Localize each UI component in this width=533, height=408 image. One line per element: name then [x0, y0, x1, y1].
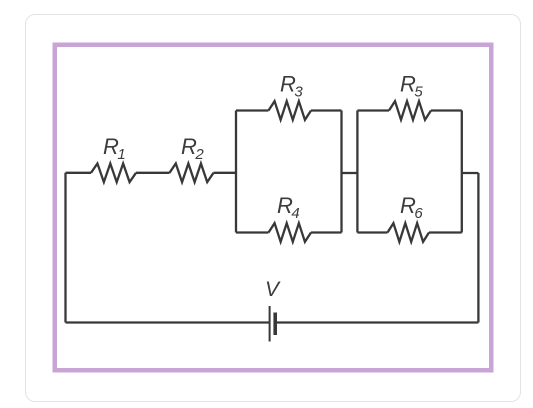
- wire box1 bottom left: [236, 231, 269, 233]
- node box1 left vertical: [235, 111, 237, 233]
- svg-text:R3: R3: [280, 72, 303, 101]
- wire box2 bottom left: [357, 231, 387, 233]
- svg-text:R1: R1: [103, 134, 126, 163]
- battery V short plate: [273, 313, 277, 336]
- wire left vertical: [64, 173, 66, 323]
- wire bottom left segment: [66, 321, 270, 323]
- svg-text:R2: R2: [181, 134, 204, 163]
- node box2 left vertical: [356, 111, 358, 233]
- wire bottom right segment: [275, 321, 478, 323]
- svg-text:R5: R5: [400, 72, 423, 101]
- wire box1 bottom right: [311, 231, 342, 233]
- resistor R5: [389, 101, 431, 120]
- svg-text:R6: R6: [400, 193, 423, 222]
- wire between R1 and R2: [136, 172, 170, 174]
- wire main left segment: [66, 172, 92, 174]
- node box1 right vertical: [340, 111, 342, 233]
- wire box2 bottom right: [429, 231, 462, 233]
- svg-text:R4: R4: [277, 193, 300, 222]
- purple frame: [55, 45, 492, 371]
- resistor R1: [91, 164, 136, 183]
- resistor R3: [269, 101, 312, 120]
- wire box2 top right: [431, 109, 462, 111]
- wire R2 to parallel box 1: [214, 172, 237, 174]
- svg-text:V: V: [265, 278, 281, 301]
- wire box1 top right: [311, 109, 342, 111]
- node box2 right vertical: [461, 111, 463, 233]
- resistor R2: [170, 164, 214, 183]
- wire stub box2 to right vertical: [462, 172, 479, 174]
- wire box1 top left: [236, 109, 269, 111]
- battery V long plate: [269, 306, 271, 342]
- resistor R4: [269, 223, 312, 242]
- wire connector box1 to box2: [342, 172, 358, 174]
- resistor R6: [388, 223, 430, 242]
- wire right vertical: [477, 173, 479, 323]
- wire box2 top left: [357, 109, 389, 111]
